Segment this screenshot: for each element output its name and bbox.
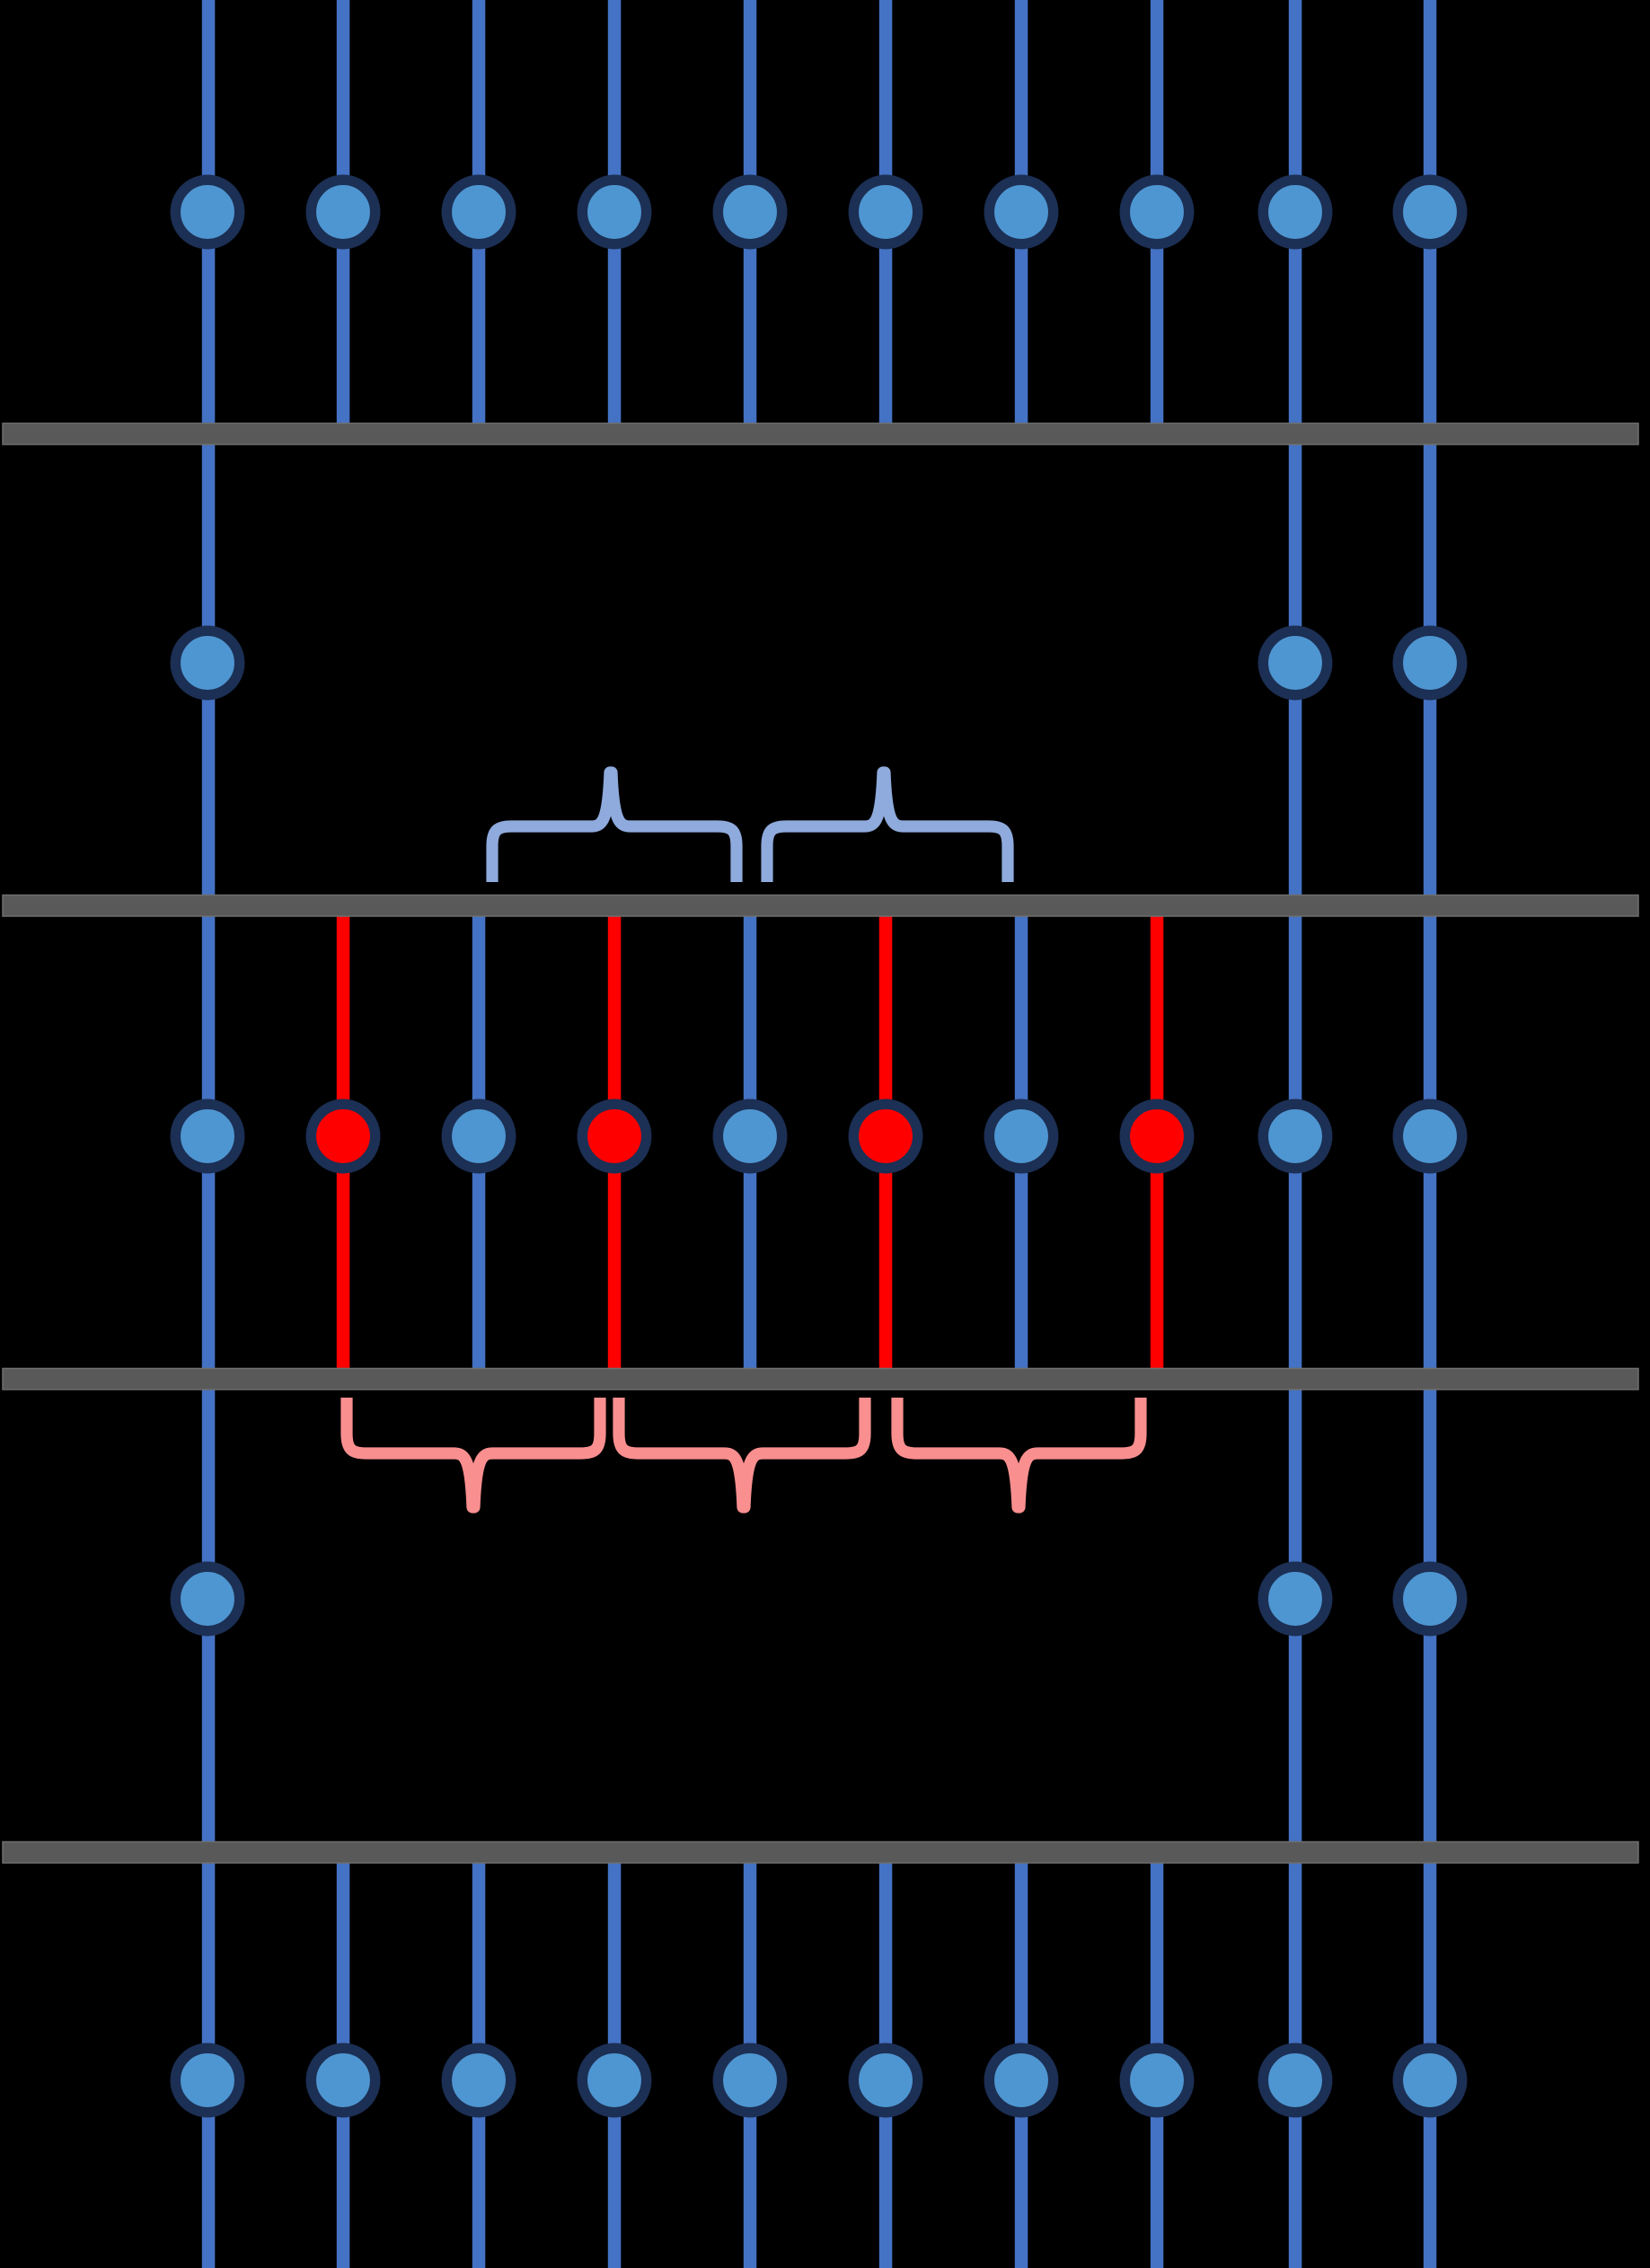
node r5c10 bbox=[1398, 2048, 1461, 2112]
node r1c6 bbox=[853, 180, 917, 243]
node r2c10 bbox=[1398, 631, 1461, 694]
wire: line 8 middle segment (red) bbox=[1151, 915, 1164, 1369]
node r4c9 bbox=[1263, 1566, 1327, 1630]
wire: line 6 bottom segment bbox=[879, 1852, 893, 2268]
node r5c7 bbox=[989, 2048, 1053, 2112]
wire: line 7 top segment bbox=[1015, 0, 1028, 434]
node r5c5 bbox=[718, 2048, 781, 2112]
node r1c7 bbox=[989, 180, 1053, 243]
horizontal gray bar 4 bbox=[3, 1842, 1638, 1864]
node r5c1 bbox=[175, 2048, 239, 2112]
pink down-brace 1 (under lines 2-4, tip at line 3) bbox=[347, 1398, 600, 1507]
pink down-brace 2 (under lines 4-6, tip at line 5) bbox=[619, 1398, 865, 1507]
node r5c4 bbox=[582, 2048, 646, 2112]
node r3c3 bbox=[446, 1104, 510, 1168]
node r3c5 bbox=[718, 1104, 781, 1168]
node r3c8 (red) bbox=[1125, 1104, 1188, 1168]
wire: vertical line 10 (full height) bbox=[1424, 0, 1437, 2268]
node r2c1 bbox=[175, 631, 239, 694]
node r1c8 bbox=[1125, 180, 1188, 243]
wire: line 6 top segment bbox=[879, 0, 893, 434]
node r1c3 bbox=[446, 180, 510, 243]
wire: line 6 middle segment (red) bbox=[879, 915, 893, 1369]
node r3c2 (red) bbox=[311, 1104, 375, 1168]
blue up-brace A (over lines 3-5, tip at line 4) bbox=[492, 772, 737, 882]
node row 4 (y=1780): blue circles on lines 1, 9, 10 bbox=[175, 1566, 1461, 1630]
node r5c2 bbox=[311, 2048, 375, 2112]
node r5c6 bbox=[853, 2048, 917, 2112]
node r3c1 bbox=[175, 1104, 239, 1168]
node r5c9 bbox=[1263, 2048, 1327, 2112]
wire: vertical line 1 (full height) bbox=[202, 0, 216, 2268]
node r3c7 bbox=[989, 1104, 1053, 1168]
node r1c4 bbox=[582, 180, 646, 243]
wire: line 4 bottom segment bbox=[608, 1852, 622, 2268]
wire: line 2 bottom segment bbox=[337, 1852, 350, 2268]
wire: line 7 middle segment (blue) bbox=[1015, 915, 1028, 1369]
node r5c8 bbox=[1125, 2048, 1188, 2112]
node r2c9 bbox=[1263, 631, 1327, 694]
wire: line 4 middle segment (red) bbox=[608, 915, 622, 1369]
wire: line 8 bottom segment bbox=[1151, 1852, 1164, 2268]
node r5c3 bbox=[446, 2048, 510, 2112]
wire: line 8 top segment bbox=[1151, 0, 1164, 434]
node r4c1 bbox=[175, 1566, 239, 1630]
node r1c5 bbox=[718, 180, 781, 243]
node r3c6 (red) bbox=[853, 1104, 917, 1168]
node r3c9 bbox=[1263, 1104, 1327, 1168]
wire: vertical line 9 (full height) bbox=[1289, 0, 1302, 2268]
wire: line 4 top segment bbox=[608, 0, 622, 434]
node row 3 (y=1265): circles on all 10 lines, red on 2,4,6,8 bbox=[175, 1104, 1461, 1168]
node r4c10 bbox=[1398, 1566, 1461, 1630]
horizontal gray bar 3 bbox=[3, 1369, 1638, 1390]
node row 5 (y=2316): blue circles on all 10 lines bbox=[175, 2048, 1461, 2112]
wire: line 5 top segment bbox=[744, 0, 757, 434]
wire: line 7 bottom segment bbox=[1015, 1852, 1028, 2268]
node r1c1 bbox=[175, 180, 239, 243]
pink down-brace 3 (under lines 6-8, tip at line 7) bbox=[897, 1398, 1141, 1507]
node row 2 (y=738): blue circles on lines 1, 9, 10 bbox=[175, 631, 1461, 694]
node r1c2 bbox=[311, 180, 375, 243]
wire: line 2 middle segment (red) bbox=[337, 915, 350, 1369]
node r1c9 bbox=[1263, 180, 1327, 243]
wire: line 3 middle segment (blue) bbox=[472, 915, 486, 1369]
wire: line 3 top segment bbox=[472, 0, 486, 434]
wire: line 2 top segment bbox=[337, 0, 350, 434]
blue up-brace B (over lines 5-7, tip at line 6) bbox=[767, 772, 1008, 882]
wire: line 5 middle segment (blue) bbox=[744, 915, 757, 1369]
node r3c10 bbox=[1398, 1104, 1461, 1168]
node r3c4 (red) bbox=[582, 1104, 646, 1168]
wire: line 5 bottom segment bbox=[744, 1852, 757, 2268]
horizontal gray bar 2 bbox=[3, 896, 1638, 917]
node r1c10 bbox=[1398, 180, 1461, 243]
horizontal gray bar 1 bbox=[3, 423, 1638, 445]
node row 1 (y=236): blue circles on all 10 lines bbox=[175, 180, 1461, 243]
wire: line 3 bottom segment bbox=[472, 1852, 486, 2268]
